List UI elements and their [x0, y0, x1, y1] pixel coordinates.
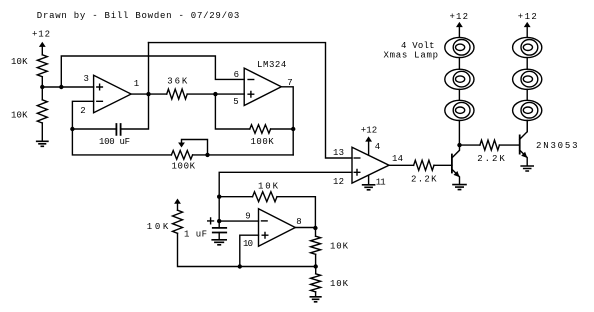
wire R3 to pin5 [187, 93, 244, 95]
node I junction dot [217, 219, 221, 223]
wire L5 to L6 [526, 89, 528, 100]
capacitor C1 100uF [116, 124, 120, 135]
node C junction dot [70, 127, 74, 131]
wire pot to output7 rail [193, 154, 294, 156]
svg-text:+12: +12 [361, 126, 378, 136]
op-amp U1D [259, 209, 296, 247]
wire R2 leads [41, 87, 43, 141]
lamp L4 [513, 37, 542, 57]
lamp L6 [513, 100, 542, 120]
label 10K R9 [330, 279, 349, 289]
label 10K R1 [11, 57, 28, 67]
node M junction dot [457, 143, 461, 147]
label 2.2K R10 [411, 175, 437, 185]
wire L4 to L5 [526, 58, 528, 70]
pin label 7 [287, 78, 292, 88]
U1D plus sign [262, 232, 268, 238]
wire pin9 [219, 220, 258, 222]
wire R8 to node K [315, 254, 317, 266]
pin label 13 [333, 148, 344, 158]
U1B plus sign [248, 91, 254, 97]
ground G3 [212, 240, 226, 245]
+12 arrow lamp string 1 [456, 22, 463, 38]
label LM324 [257, 60, 286, 70]
svg-text:Xmas Lamp: Xmas Lamp [384, 50, 439, 60]
label 2N3053 [536, 141, 578, 151]
svg-text:10K: 10K [330, 279, 349, 289]
potentiometer R5 100K element [171, 151, 192, 160]
svg-text:+12: +12 [450, 12, 469, 22]
U1A plus sign [97, 84, 103, 90]
U1A minus sign [97, 100, 103, 102]
ground G2 [363, 185, 375, 190]
svg-text:10K: 10K [11, 110, 28, 120]
svg-text:12: 12 [333, 177, 344, 187]
ground G5 [453, 185, 466, 190]
label 100K R4 [251, 137, 275, 147]
pin label 6 [234, 70, 239, 80]
svg-text:100 uF: 100 uF [99, 137, 130, 147]
op-amp U1B LM324 [244, 68, 281, 105]
svg-text:10: 10 [243, 239, 253, 249]
wire L1 to L2 [458, 58, 460, 70]
pin label 2 [80, 106, 85, 116]
resistor R8 10K [311, 236, 321, 254]
resistor R1 10K [37, 55, 47, 77]
svg-text:4: 4 [375, 142, 380, 152]
svg-text:1 uF: 1 uF [184, 229, 207, 239]
pin label 10 [243, 239, 253, 249]
node B junction dot [59, 85, 63, 89]
svg-text:36K: 36K [167, 76, 188, 86]
wire C1 right lead to output node [121, 43, 149, 129]
label Xmas Lamp [384, 50, 439, 60]
svg-text:100K: 100K [251, 137, 275, 147]
resistor R6 10K feedback [253, 192, 278, 202]
transistor Q1 base bar [451, 155, 453, 173]
title text [37, 11, 240, 21]
+12 arrow pull-up [174, 199, 181, 211]
wire output8 [295, 227, 315, 229]
svg-text:9: 9 [245, 211, 250, 221]
label 10K R8 [330, 241, 349, 251]
pin label 1 [134, 79, 139, 89]
wire R4 to output7 [271, 128, 294, 130]
label 36K [167, 76, 188, 86]
wire node K to R9 [315, 267, 317, 274]
label 4 Volt [401, 41, 435, 51]
resistor R7 10K pull-up [173, 210, 183, 233]
wire R1 to node A [41, 77, 43, 87]
svg-text:1: 1 [134, 79, 139, 89]
U1D minus sign [262, 220, 268, 222]
wire output8 to R8 [315, 228, 317, 236]
svg-text:10K: 10K [11, 57, 28, 67]
ground G4 [310, 297, 321, 302]
op-amp U1A [94, 75, 132, 113]
node D output1 junction dot [146, 92, 150, 96]
+12 supply label (left) [32, 30, 50, 40]
capacitor C2 1uF [213, 228, 226, 233]
svg-text:LM324: LM324 [257, 60, 286, 70]
transistor Q2 base bar [519, 135, 521, 153]
wire pin2 to C1 node [72, 101, 93, 129]
transistor Q1 emitter [452, 169, 460, 184]
ground G1 [37, 141, 48, 146]
svg-text:2: 2 [80, 106, 85, 116]
label 2.2K R11 [477, 154, 505, 164]
wire C1 left lead [72, 128, 116, 130]
resistor R9 10K [311, 274, 321, 292]
pin label 12 [333, 177, 344, 187]
+12 arrow (left) [39, 42, 46, 55]
U1B minus sign [248, 79, 254, 81]
svg-text:6: 6 [234, 70, 239, 80]
+12 supply label lamp string 1 [450, 12, 469, 22]
node A junction dot [40, 85, 44, 89]
pot R5 wiper [178, 140, 207, 155]
label 100K pot [172, 162, 196, 172]
svg-text:10K: 10K [147, 222, 169, 232]
svg-text:8: 8 [296, 217, 301, 227]
svg-text:+12: +12 [32, 30, 50, 40]
wire node C down to pot rail [72, 129, 171, 155]
wire R7 to bottom rail [178, 233, 316, 266]
resistor R11 2.2K [480, 140, 500, 150]
U1C plus sign [354, 170, 360, 176]
resistor R10 2.2K [414, 160, 434, 170]
wire R6 left lead [219, 196, 252, 198]
svg-text:+12: +12 [518, 12, 537, 22]
node L junction dot [313, 226, 317, 230]
op-amp U1C [352, 147, 389, 183]
node F junction dot [291, 127, 295, 131]
wire R10 to Q1 base [434, 164, 452, 166]
transistor Q2 collector [520, 121, 528, 140]
wire L3 to Q1 collector node [458, 121, 460, 146]
svg-text:10K: 10K [330, 241, 349, 251]
pin label 8 [296, 217, 301, 227]
wire L6 to Q2 collector [526, 121, 528, 132]
wire pin12 to pin9 node [219, 172, 352, 221]
node G pot junction dot [205, 153, 209, 157]
svg-text:5: 5 [233, 97, 238, 107]
label 10K R6 [258, 181, 279, 191]
svg-text:2.2K: 2.2K [411, 175, 437, 185]
+12 arrow U1C pin4 [365, 136, 372, 154]
wire top rail to pin13 [149, 43, 353, 158]
U1C minus sign [354, 157, 360, 159]
svg-text:10K: 10K [258, 181, 279, 191]
wire R11 to Q2 base [499, 144, 519, 146]
pin label 3 [84, 74, 89, 84]
ground G6 [521, 166, 533, 171]
svg-text:3: 3 [84, 74, 89, 84]
node K junction dot [314, 264, 318, 268]
resistor R2 10K [37, 100, 47, 123]
wire output1 to R3 [131, 93, 167, 95]
svg-text:100K: 100K [172, 162, 196, 172]
+12 supply label lamp string 2 [518, 12, 537, 22]
wire output14 to R10 [389, 164, 414, 166]
label 100 uF [99, 137, 130, 147]
capacitor C2 plus sign [208, 218, 214, 224]
+12 supply label U1C [361, 126, 378, 136]
transistor Q1 collector [452, 145, 460, 158]
svg-text:11: 11 [376, 177, 386, 187]
wire pin5 node down to R4 [215, 94, 249, 129]
wire C2 top lead [218, 221, 220, 228]
wire output7 down to pot rail [281, 87, 293, 155]
pin label 9 [245, 211, 250, 221]
label 10K R2 [11, 110, 28, 120]
svg-text:2.2K: 2.2K [477, 154, 505, 164]
wire node M to R11 [460, 144, 480, 146]
wire R6 to output8 [277, 197, 315, 228]
svg-text:14: 14 [392, 154, 403, 164]
+12 arrow lamp string 2 [524, 22, 531, 38]
node J junction dot [238, 264, 242, 268]
wire hysteresis node B to pin6 [61, 56, 244, 87]
wire pin10 [240, 235, 259, 266]
pin label 14 [392, 154, 403, 164]
node E pin5 junction dot [213, 92, 217, 96]
lamp L2 [445, 69, 474, 89]
label 10K R7 [147, 222, 169, 232]
wire R9 to ground [315, 292, 317, 297]
wire L2 to L3 [458, 89, 460, 100]
wire C2 bottom lead [218, 233, 220, 240]
node H junction dot [217, 195, 221, 199]
pin label 5 [233, 97, 238, 107]
lamp L5 [513, 69, 542, 89]
U1C pin11 ground stub [368, 176, 370, 185]
resistor R3 36K [167, 89, 188, 99]
resistor R4 100K [250, 125, 271, 134]
lamp L3 [445, 100, 474, 120]
svg-text:Drawn by - Bill Bowden - 07/2: Drawn by - Bill Bowden - 07/29/03 [37, 11, 240, 21]
lamp L1 [445, 37, 474, 57]
pin label 11 [376, 177, 386, 187]
transistor Q2 emitter [520, 150, 528, 166]
svg-text:13: 13 [333, 148, 344, 158]
label 1 uF [184, 229, 207, 239]
pin label 4 [375, 142, 380, 152]
wire node A to pin3 [42, 86, 93, 88]
